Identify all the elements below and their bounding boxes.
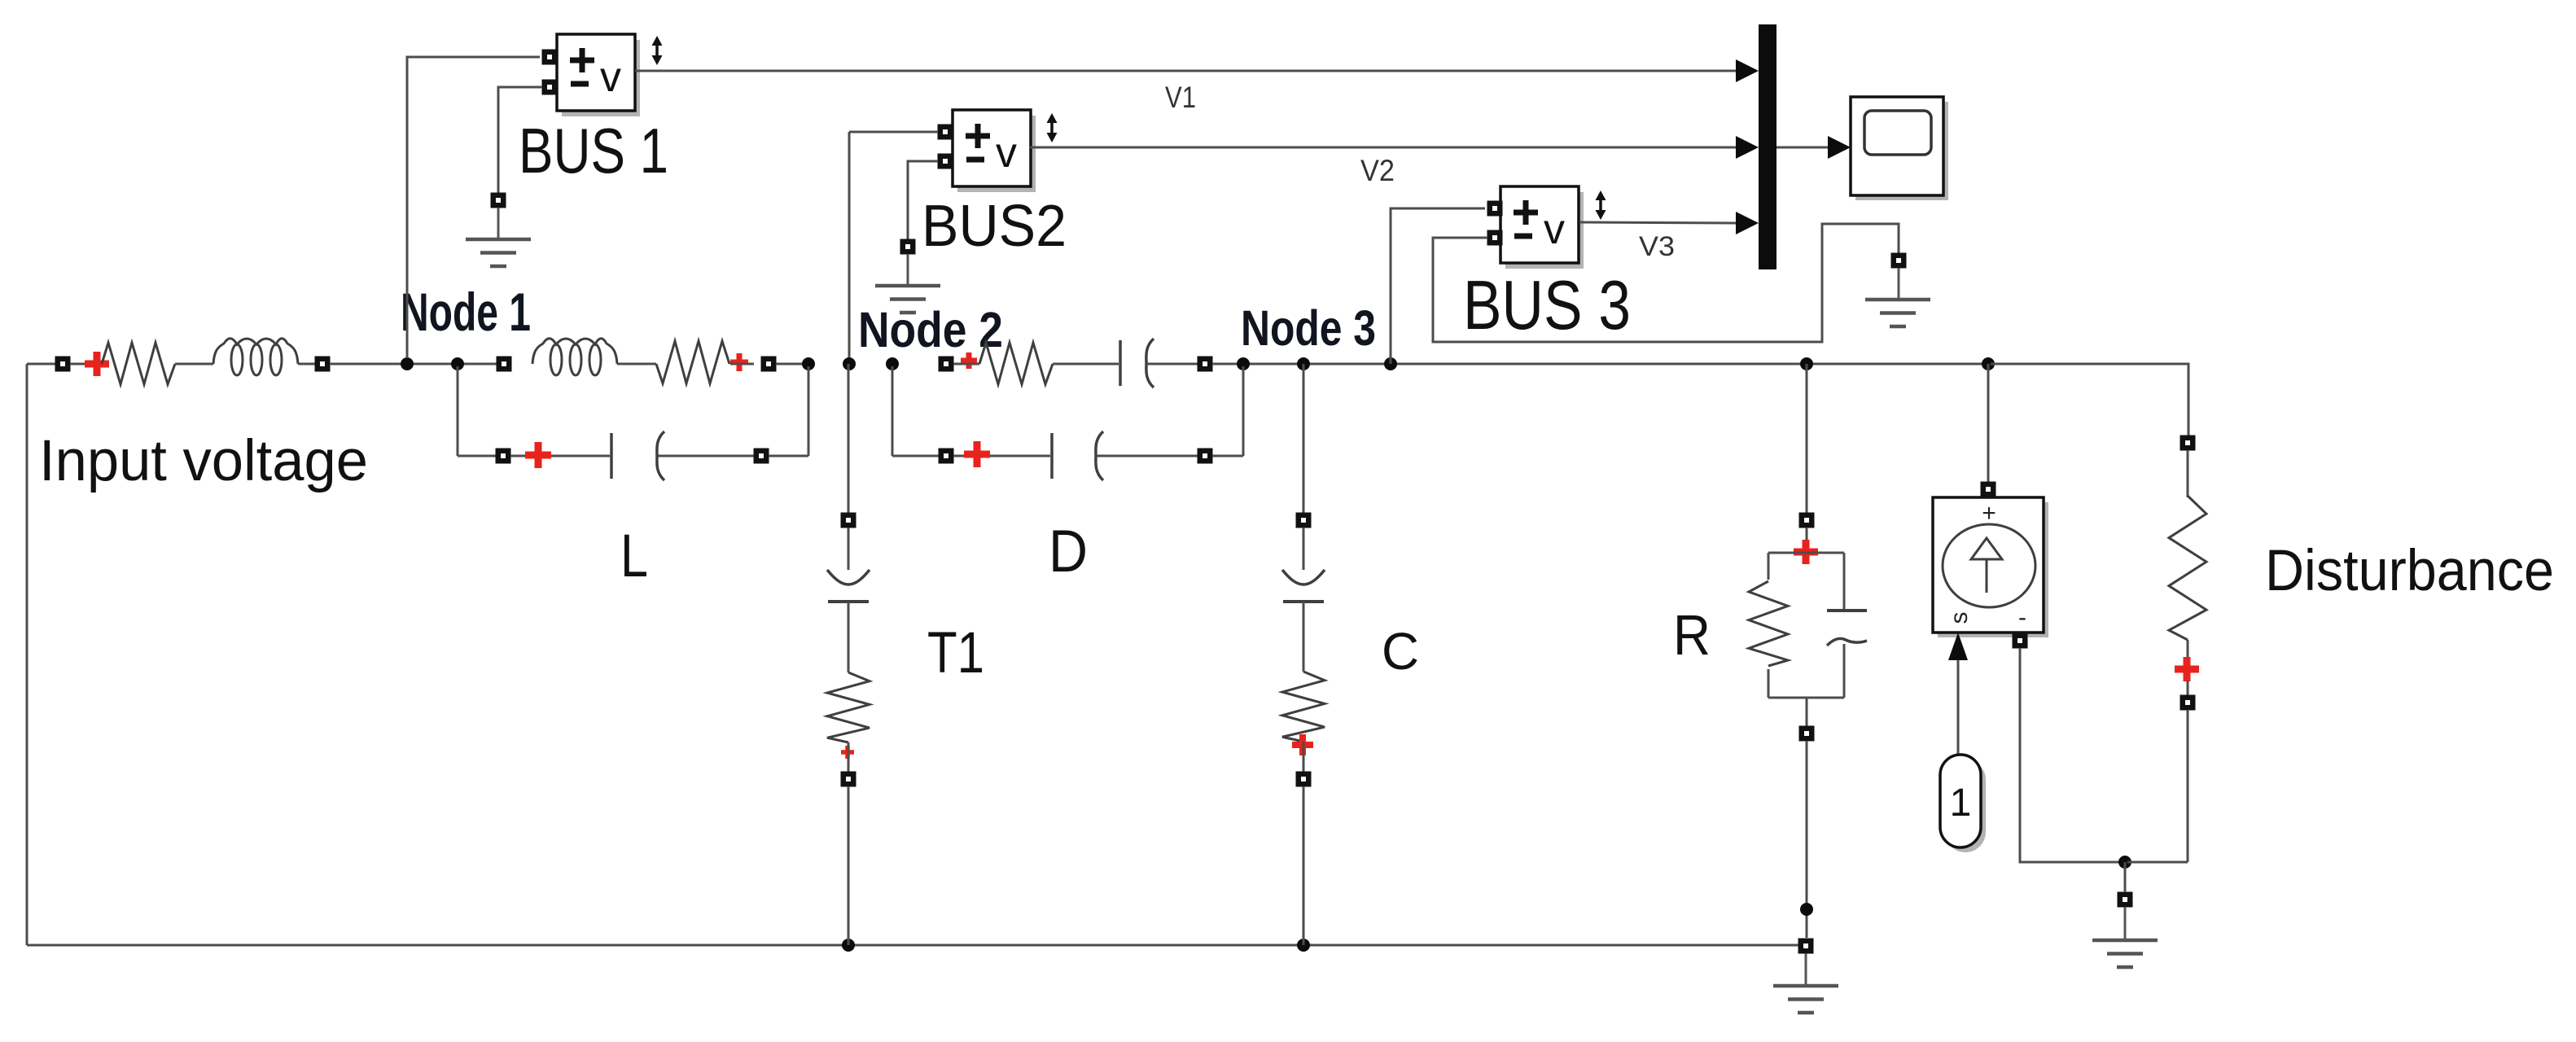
wire R right upper xyxy=(1843,553,1846,609)
wire to disturbance bottom xyxy=(2127,861,2188,864)
svg-text:V1: V1 xyxy=(1165,81,1196,114)
wire D lower left vertical xyxy=(892,366,894,456)
inductor input series L xyxy=(213,339,298,375)
wire coil to port xyxy=(298,363,315,366)
junction R tap xyxy=(1800,357,1813,370)
wire R rail to port xyxy=(1806,698,1808,726)
wire Node1 to BUS1 + xyxy=(407,57,540,358)
wire V1 xyxy=(635,70,1736,72)
wire R top rail xyxy=(1768,552,1844,554)
wire main line left segment xyxy=(27,363,55,366)
label Disturbance xyxy=(2265,539,2554,603)
scope block xyxy=(1851,97,1948,200)
wire current source minus down xyxy=(2020,648,2123,862)
wire L lower right segment xyxy=(769,455,808,458)
port C bottom xyxy=(1296,772,1312,787)
port D lower right xyxy=(1198,449,1213,464)
svg-text:L: L xyxy=(620,522,648,589)
wire T1 resistor to port xyxy=(848,742,850,772)
wire bottom bus xyxy=(27,944,1798,947)
wire C to bottom bus xyxy=(1303,786,1305,945)
wire C resistor to port xyxy=(1303,742,1305,772)
polarity + input voltage xyxy=(85,352,109,376)
node Node 1 junction xyxy=(401,357,414,370)
wire D port to junction xyxy=(1212,363,2188,366)
wire T1 branch upper xyxy=(848,364,850,513)
ground BUS2 xyxy=(875,254,940,313)
wire T1 capacitor to resistor xyxy=(848,602,850,672)
wire D lower to capacitor xyxy=(953,455,1050,458)
port BUS3 - xyxy=(1487,230,1503,246)
capacitor R parallel xyxy=(1827,611,1867,646)
wire main line right corner xyxy=(1991,364,2188,436)
mux input arrow V3 xyxy=(1736,212,1759,234)
wire R branch upper xyxy=(1806,364,1808,513)
junction D lower tap xyxy=(886,357,899,370)
wire BUS3 - loop to ground xyxy=(1433,224,1899,342)
svg-text:Node 2: Node 2 xyxy=(858,302,1003,357)
ground BUS1 xyxy=(466,208,531,266)
polarity + C xyxy=(1292,734,1313,755)
wire disturbance resistor to plus xyxy=(2187,640,2189,658)
label L xyxy=(620,522,648,589)
capacitor D lower xyxy=(1052,431,1103,480)
svg-text:V2: V2 xyxy=(1360,154,1395,187)
arrow into scope xyxy=(1828,136,1851,159)
wire C capacitor to resistor xyxy=(1303,602,1305,672)
wire T1 to bottom bus xyxy=(848,786,850,945)
label BUS2 xyxy=(922,194,1067,259)
resistor Disturbance xyxy=(2169,496,2206,640)
wire D port to resistor xyxy=(953,363,979,366)
svg-text:V3: V3 xyxy=(1639,231,1675,262)
mux input arrow V2 xyxy=(1736,136,1759,159)
wire L coil to resistor xyxy=(617,363,656,366)
port D branch right xyxy=(1198,357,1213,372)
label D xyxy=(1049,519,1088,584)
svg-text:v: v xyxy=(996,129,1017,177)
polarity + T1 xyxy=(841,746,854,759)
ground R xyxy=(1773,953,1838,1013)
wire input-voltage left vertical xyxy=(26,364,28,945)
svg-text:Node 3: Node 3 xyxy=(1241,300,1376,356)
resistor C xyxy=(1282,672,1325,742)
polarity + disturbance xyxy=(2175,657,2199,681)
node Node 2 junction xyxy=(843,357,856,370)
port BUS2 + xyxy=(938,125,953,140)
label BUS 3 xyxy=(1463,267,1631,344)
voltage measurement BUS 1 xyxy=(557,34,640,116)
wire ground junction to port xyxy=(2124,862,2127,892)
wire disturbance down xyxy=(2187,710,2189,862)
wire current source upper xyxy=(1987,364,1990,482)
port disturbance bottom xyxy=(2180,695,2196,711)
wire C branch upper xyxy=(1303,364,1305,513)
port D branch left xyxy=(939,357,954,372)
wire T1 port to capacitor xyxy=(848,528,850,570)
port BUS2 ground xyxy=(900,239,916,255)
wire D resistor to capacitor xyxy=(1053,363,1119,366)
signal arrow into current source xyxy=(1948,633,1968,660)
wire resistor to coil xyxy=(175,363,213,366)
port C top xyxy=(1296,513,1312,528)
wire R bottom rail xyxy=(1768,697,1844,699)
wire BUS2 - to ground xyxy=(908,161,938,239)
wire BUS1 - to ground xyxy=(498,87,542,193)
label V2 xyxy=(1360,154,1395,187)
label V1 xyxy=(1165,81,1196,114)
resistor input series R xyxy=(102,343,175,384)
junction L lower right tap xyxy=(802,357,815,370)
svg-text:-: - xyxy=(2018,604,2026,631)
label Node 2 xyxy=(858,302,1003,357)
port input voltage left xyxy=(55,357,71,372)
svg-text:Disturbance: Disturbance xyxy=(2265,539,2554,603)
wire R to ground junction xyxy=(1806,741,1808,938)
port BUS1 - xyxy=(542,80,558,95)
mux input arrow V1 xyxy=(1736,59,1759,82)
capacitor C xyxy=(1282,570,1325,602)
wire L lower left segment xyxy=(458,455,496,458)
port L branch left xyxy=(497,357,512,372)
wire L lower right vertical xyxy=(808,366,810,456)
voltage measurement BUS 3 xyxy=(1500,186,1584,269)
wire R left lower xyxy=(1768,669,1770,698)
svg-text:BUS2: BUS2 xyxy=(922,194,1067,259)
port BUS3 + xyxy=(1487,201,1503,217)
wire port to junction xyxy=(776,363,811,366)
constant block 1 xyxy=(1940,755,1986,852)
wire L lower capacitor to port xyxy=(658,455,754,458)
polarity + D branch xyxy=(961,352,977,369)
port BUS3 ground xyxy=(1891,253,1907,269)
junction L-branch lower tap xyxy=(451,357,464,370)
signal icon BUS3 xyxy=(1596,190,1606,220)
svg-text:1: 1 xyxy=(1950,781,1972,825)
wire D capacitor to port xyxy=(1147,363,1198,366)
capacitor D branch xyxy=(1120,339,1154,387)
polarity + R xyxy=(1794,540,1818,564)
port R ground xyxy=(1798,939,1814,954)
svg-text:D: D xyxy=(1049,519,1088,584)
wire disturbance to port xyxy=(2187,681,2189,695)
resistor R xyxy=(1749,581,1788,666)
label R xyxy=(1673,603,1711,667)
port T1 top xyxy=(841,513,856,528)
signal icon BUS1 xyxy=(652,36,663,65)
capacitor T1 xyxy=(827,570,870,602)
wire C port to capacitor xyxy=(1303,528,1305,570)
wire D lower right segment xyxy=(1212,455,1243,458)
svg-text:v: v xyxy=(600,54,621,101)
junction D lower right tap xyxy=(1237,357,1250,370)
capacitor L lower xyxy=(611,431,664,480)
port bottom right ground xyxy=(2118,892,2133,908)
wire constant to current source xyxy=(1957,660,1960,755)
wire V2 xyxy=(1030,147,1736,149)
resistor L branch xyxy=(656,341,729,383)
wire R port to rail xyxy=(1806,528,1808,553)
port BUS1 + xyxy=(542,50,558,65)
svg-text:C: C xyxy=(1382,622,1419,681)
port L lower left xyxy=(496,449,511,464)
wire R right lower xyxy=(1843,644,1846,698)
wire D lower capacitor to port xyxy=(1097,455,1198,458)
svg-text:Input voltage: Input voltage xyxy=(39,429,368,493)
junction bottom right ground xyxy=(2118,856,2131,869)
port L lower right xyxy=(754,449,769,464)
junction BUS3+ tap xyxy=(1384,357,1397,370)
svg-text:R: R xyxy=(1673,603,1711,667)
junction R ground xyxy=(1800,903,1813,916)
current source block xyxy=(1933,497,2048,637)
port disturbance top xyxy=(2180,436,2196,451)
inductor L xyxy=(532,339,617,375)
svg-text:Node 1: Node 1 xyxy=(401,282,531,342)
resistor D branch xyxy=(979,343,1053,384)
port T1 bottom xyxy=(841,772,856,787)
label C xyxy=(1382,622,1419,681)
port D lower left xyxy=(939,449,954,464)
label Node 1 xyxy=(401,282,531,342)
wire L lower left vertical xyxy=(457,366,459,456)
port current source + xyxy=(1981,482,1996,497)
wire R left upper xyxy=(1768,553,1770,580)
voltage measurement BUS2 xyxy=(953,110,1036,192)
port BUS2 - xyxy=(938,154,953,169)
resistor T1 xyxy=(827,672,870,742)
wire mux to scope xyxy=(1776,147,1829,149)
wire BUS3+ up xyxy=(1391,208,1485,364)
port L branch right xyxy=(761,357,777,372)
label BUS 1 xyxy=(519,115,668,186)
wire D lower right vertical xyxy=(1242,366,1245,456)
signal icon BUS2 xyxy=(1047,113,1058,142)
port BUS1 ground xyxy=(491,193,506,208)
svg-text:T1: T1 xyxy=(927,621,984,685)
label V3 xyxy=(1639,231,1675,262)
wire to Node 1 xyxy=(330,363,511,366)
mux bar xyxy=(1759,24,1776,269)
svg-text:v: v xyxy=(1544,206,1565,253)
polarity + L lower xyxy=(525,442,551,468)
junction current source tap xyxy=(1982,357,1995,370)
wire BUS2+ down to Node 2 xyxy=(848,132,851,364)
junction bottom bus / T1 xyxy=(842,939,855,952)
port input voltage right xyxy=(315,357,331,372)
node Node 3 junction xyxy=(1297,357,1310,370)
port current source - xyxy=(2013,633,2028,649)
wire V3 xyxy=(1579,222,1736,223)
wire port to resistor xyxy=(70,363,103,366)
port R top xyxy=(1799,513,1815,528)
svg-text:BUS 1: BUS 1 xyxy=(519,115,668,186)
ground BUS3 xyxy=(1865,268,1930,326)
polarity + D lower xyxy=(964,441,990,467)
ground bottom right xyxy=(2092,907,2158,967)
label Node 3 xyxy=(1241,300,1376,356)
port R bottom xyxy=(1799,726,1815,742)
wire BUS2 + left xyxy=(849,131,938,134)
svg-text:+: + xyxy=(1982,500,1996,527)
polarity + L branch xyxy=(730,353,748,371)
svg-text:BUS 3: BUS 3 xyxy=(1463,267,1631,344)
junction bottom bus / C xyxy=(1297,939,1310,952)
wire resistor to port xyxy=(730,363,754,366)
svg-text:s: s xyxy=(1946,612,1973,624)
wire D lower left segment xyxy=(892,455,939,458)
wire disturbance port to resistor xyxy=(2187,450,2189,497)
wire L lower to capacitor xyxy=(510,455,610,458)
label Input voltage xyxy=(39,429,368,493)
label T1 xyxy=(927,621,984,685)
